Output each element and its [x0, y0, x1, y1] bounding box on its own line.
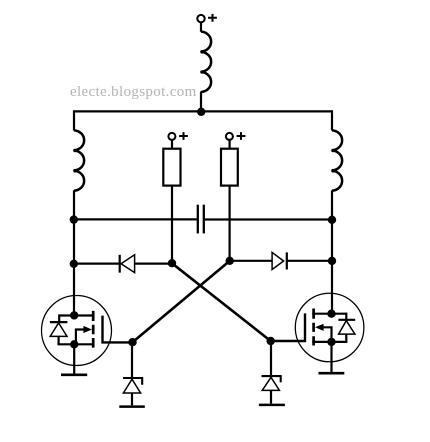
wire left rail to Q1 drain	[73, 264, 75, 315]
node D2 / R2 / diagonal	[226, 257, 234, 265]
Q2 body diode triangle	[339, 321, 355, 335]
wire cap line right	[205, 218, 332, 220]
Q1 body diode wire bottom	[57, 336, 59, 344]
node right rail / diode line	[328, 257, 336, 265]
wire diode line right a	[230, 260, 273, 262]
Q2 gate line and lead	[271, 313, 305, 341]
ground (Q2 source)	[319, 372, 345, 375]
wire left gate node to Z1	[131, 342, 133, 377]
wire supply to L1	[200, 22, 202, 32]
diode D1 (cathode left)	[119, 255, 121, 273]
zener Z1 triangle	[123, 379, 140, 393]
inductor L1 (top feed choke)	[201, 32, 211, 93]
wire Z1 to ground	[131, 393, 133, 405]
Q2 body diode wire top	[345, 313, 347, 320]
capacitor C1	[197, 205, 199, 234]
node D1 / R1 / diagonal	[168, 259, 176, 267]
Q1 body diode wire top	[58, 314, 60, 322]
Q1 body diode cathode bar	[50, 321, 68, 323]
Q2 source node	[327, 338, 335, 346]
Q2 drain node	[327, 310, 335, 318]
wire cap line left	[74, 218, 197, 220]
Q1 channel segments	[92, 311, 95, 348]
wire right rail to Q2 drain	[331, 261, 333, 314]
ground (Q1 source)	[61, 373, 87, 376]
Q1 source wire down	[73, 344, 75, 373]
node center top rail	[197, 108, 205, 116]
Q2 drain bar wire	[312, 313, 346, 315]
Q1 body arrow	[76, 330, 85, 345]
Q2 body arrow	[323, 327, 332, 342]
resistor R2	[221, 149, 238, 186]
wire top rail	[74, 110, 332, 112]
Q2 source wire down	[330, 342, 332, 372]
wire diode line left a	[74, 263, 120, 265]
wire diagonal left-node to right-gate	[172, 263, 271, 341]
wire terminal to R1	[171, 140, 173, 149]
inductor L3 (right tank half)	[332, 130, 342, 191]
wire left rail mid	[73, 190, 75, 264]
Q2 channel segments	[312, 309, 315, 346]
transistor Q2 (right N-MOSFET) body circle	[295, 293, 364, 362]
supply terminal + (right gate bias)	[226, 133, 233, 140]
node right gate junction	[267, 337, 275, 345]
node left rail / diode line	[70, 260, 78, 268]
wire diode line right b	[287, 260, 332, 262]
node left gate junction	[128, 338, 136, 346]
transistor Q1 (left N-MOSFET) body circle	[42, 296, 112, 366]
wire right rail upper	[331, 110, 333, 130]
node right rail / cap line	[328, 216, 336, 224]
supply terminal + (left gate bias)	[168, 133, 175, 140]
Q1 drain bar wire	[59, 314, 94, 316]
wire right gate node to Z2	[270, 341, 272, 375]
Q1 drain node	[70, 311, 78, 319]
zener Z2 cathode bar	[262, 376, 282, 382]
wire R1 to left gate node	[171, 186, 173, 264]
wire diagonal right-node to left-gate	[133, 261, 230, 342]
wire right rail mid	[331, 190, 333, 261]
ground (Z2)	[259, 404, 285, 407]
Q1 body diode triangle	[50, 323, 67, 337]
diode D2 (cathode right)	[272, 252, 284, 269]
wire R2 to right gate node	[229, 186, 231, 261]
Q1 gate line and lead	[103, 316, 133, 343]
wire diode line left b	[135, 263, 172, 265]
Q2 body diode wire bottom	[345, 334, 347, 342]
ground (Z1)	[119, 405, 145, 408]
zener Z2 triangle	[262, 377, 279, 390]
inductor L2 (left tank half)	[74, 130, 84, 191]
supply terminal +V top	[197, 15, 204, 22]
Q1 source node	[70, 340, 78, 348]
Q2 source bar wire	[312, 341, 347, 343]
watermark electe.blogspot.com	[70, 84, 197, 101]
wire left rail upper	[73, 110, 75, 130]
resistor R1	[163, 149, 180, 186]
wire Z2 to ground	[270, 390, 272, 403]
Q2 body diode cathode bar	[338, 319, 355, 321]
wire L1 to top rail	[200, 92, 202, 112]
zener Z1 cathode bar	[123, 378, 143, 385]
Q1 source bar wire	[57, 343, 94, 345]
node left rail / cap line	[70, 215, 78, 223]
wire terminal to R2	[229, 140, 231, 149]
